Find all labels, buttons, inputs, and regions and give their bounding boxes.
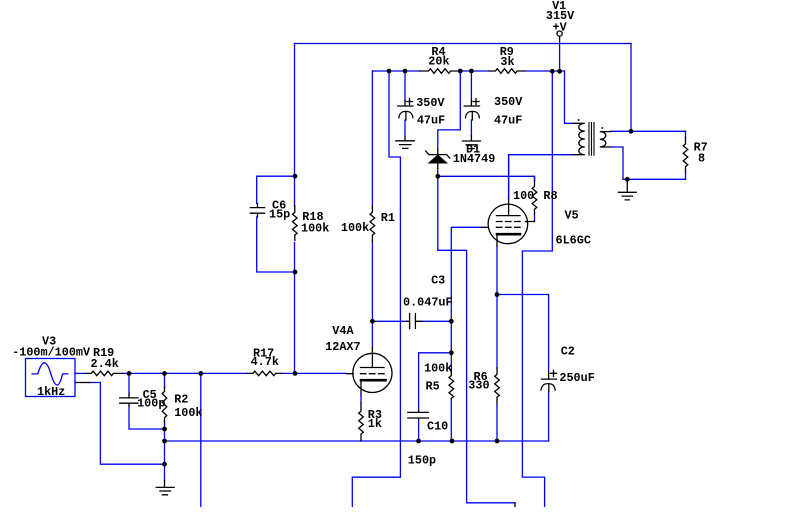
power terminal V1 +V circle [557,31,562,36]
wire V5 plate stem blue above tube [508,155,510,199]
svg-text:100k: 100k [424,362,452,376]
junction dot ground bus x419 C10 [416,439,421,444]
svg-text:C10: C10 [427,420,448,434]
V5 control grid pin left [482,226,488,228]
wire cap 47uF#1 bottom lead to ground [404,120,406,137]
svg-text:12AX7: 12AX7 [325,340,360,354]
wire vertical from top wire down to secondary top dot [630,44,632,132]
junction dot bus x460 [458,69,463,74]
wire R5 top dot to C10 branch [419,353,452,411]
ground V3 circuit [156,481,174,495]
svg-text:R8: R8 [543,189,557,203]
wire cap 47uF#1 top lead [404,71,406,100]
junction dot ground bus x497 R6 [495,439,500,444]
capacitor C10 150p plates [408,411,429,420]
junction dot V4A plate node [370,319,375,324]
wire cap 47uF#2 bottom lead to ground [470,120,472,136]
V5 cathode bar [497,233,520,236]
V5 screen grid pin right [526,221,535,223]
svg-text:350V: 350V [416,96,445,110]
junction dot V3 return [162,462,167,467]
svg-text:2.4k: 2.4k [91,357,119,371]
transformer secondary phase dot [602,127,604,129]
wire cathode junction to C2 top [497,295,549,372]
V5 screen grid dashes [496,221,520,223]
wire V3 bottom return path [90,383,165,465]
wire R2 top lead [164,373,166,387]
wire C5 top lead [128,373,130,394]
svg-text:100p: 100p [137,397,165,411]
capacitor C3 0.047uF plates [407,314,422,329]
junction dot ground bus x164 [162,439,167,444]
svg-text:R5: R5 [426,379,440,393]
capacitor 47uF#1 (350V) polarized [398,99,413,121]
svg-text:100k: 100k [174,406,202,420]
junction dot grid bus x129 [127,371,132,376]
V5 plate pin and plate bar [496,198,520,215]
resistor R4 20k [420,69,460,74]
V5 cathode pin [496,234,498,246]
svg-text:100: 100 [513,189,534,203]
ground under 47uF#2 [463,136,481,149]
svg-text:150p: 150p [408,453,436,467]
wire cap 47uF#2 top lead [470,71,472,100]
wire R8 bottom to screen grid lead [534,214,536,222]
junction dot bus x471 [469,69,474,74]
wire V5 cathode down to R6 [496,246,498,368]
V4A cathode pin [360,380,362,394]
junction dot grid bus x164 [162,371,167,376]
wire feedback from bus x552 down, step left x522.4, down, step right x544.6, off bottom [522,71,552,507]
V4A cathode bar [361,379,386,382]
svg-text:1k: 1k [368,417,382,431]
wire vertical x201 from grid bus off bottom [200,373,202,507]
voltage source V3 box [26,359,76,397]
svg-text:C2: C2 [561,345,575,359]
wire jog x389 from bus down, step to x400, down across page, step left to x353, off bottom [352,71,400,507]
svg-text:4.7k: 4.7k [251,355,279,369]
wire bus y=71 segment R4 to R9 [460,70,489,72]
resistor R5 100k [449,370,454,399]
resistor R8 100 [532,180,537,213]
svg-text:V5: V5 [565,208,579,222]
svg-text:15p: 15p [269,208,290,222]
junction dot ground bus x452 R5 [450,439,455,444]
junction dot secondary top [629,129,634,134]
transformer secondary winding [600,132,611,147]
resistor R1 100k [370,206,375,242]
wire C3 right lead [422,320,452,322]
wire D1 anode feed from bus dot x460 jog to x437.8 [438,71,461,150]
resistor R19 2.4k [86,371,122,376]
junction dot C6 top [293,174,298,179]
resistor R6 330 [495,368,500,404]
wire C2 bottom lead [548,392,550,442]
svg-text:-100m/100mV: -100m/100mV [12,345,91,359]
V4A grid dashes [360,373,385,375]
wire V5 grid1 to grid bus vertical x451.3 [451,227,482,369]
V4A grid pin [347,373,354,375]
wire bus y=71 segment R1 corner to R4 [372,70,420,72]
junction dot C5/R2 bottom [162,427,167,432]
wire C10 bottom lead [418,420,420,442]
wire D1 cathode to junction dot [437,168,439,176]
V4A triode envelope [353,353,392,392]
ground under 47uF#1 [396,137,415,149]
junction dot R5 top [449,350,454,355]
zener diode D1 1N4749 [426,150,450,169]
junction dot C6 bottom [293,270,298,275]
wire R19 to R17 grid bus [123,372,248,374]
V5 pentode envelope [488,204,528,244]
svg-text:C3: C3 [431,274,445,288]
svg-text:1kHz: 1kHz [37,385,65,399]
svg-text:330: 330 [468,379,489,393]
transformer primary winding [573,123,585,154]
svg-text:250uF: 250uF [559,371,594,385]
wire C5 bottom lead to R2 bottom dot [129,406,165,429]
capacitor C5 100p plates [120,395,138,407]
svg-text:R1: R1 [381,211,395,225]
svg-text:V4A: V4A [332,324,354,338]
junction dot grid bus x295 [293,371,298,376]
svg-text:1N4749: 1N4749 [453,152,495,166]
resistor R2 100k [162,387,167,422]
wire R7 top lead [685,131,687,137]
svg-text:350V: 350V [494,95,523,109]
wire bus y=71 segment R9 to right corner, down to transformer primary top [525,71,574,123]
junction dot D1 anode node [435,174,440,179]
V4A plate pin and plate bar [361,348,385,368]
wire R2 bottom lead to ground column [164,422,166,481]
svg-text:47uF: 47uF [494,114,522,128]
svg-text:+V: +V [553,20,568,34]
wire V3 top pin stub [75,372,86,374]
wire D1 junction to R8 top [438,176,535,180]
V3 sine wave [32,363,69,385]
transformer primary phase dot [578,119,580,121]
wire R1 bottom to V4A plate node [371,242,373,347]
capacitor C2 250uF polarized [541,370,557,391]
wire stub black at bottom edge x515 [514,503,516,507]
wire transformer primary bottom to V5 plate [509,155,574,199]
resistor R9 3k [489,69,525,74]
wire transformer secondary bottom to ground dot and R7 bottom [611,147,686,179]
resistor R3 1k [359,403,364,441]
wire C3 left lead [372,320,406,322]
junction dot bus x559 +V [557,69,562,74]
wire ground bus y=441 [165,440,549,442]
wire C6 bottom loop [257,217,295,272]
svg-text:47uF: 47uF [417,114,445,128]
junction dot cathode V5 node [495,292,500,297]
resistor R17 4.7k [247,371,282,376]
junction dot bus x389 [387,69,392,74]
svg-text:R2: R2 [174,393,188,407]
transformer core [589,123,594,156]
wire V4A cathode to R3 [360,395,362,403]
capacitor 47uF#2 (350V) polarized [464,99,479,121]
V3 source pin stub bottom [75,382,90,384]
wire left vertical x=295 from top wire to grid node [294,44,296,207]
junction dot bus x552 [550,69,555,74]
wire R5 bottom to ground bus [450,399,452,441]
svg-text:8: 8 [698,152,705,166]
wire R8 vertical feed [534,176,536,180]
junction dot grid bus x201 [198,371,203,376]
svg-text:0.047uF: 0.047uF [403,296,453,310]
svg-text:20k: 20k [428,55,449,69]
svg-text:100k: 100k [301,222,329,236]
wire D1 junction down, step right to x466.6, down, right to x516 at bottom [438,176,515,503]
wire +V stem to bus [559,44,561,72]
junction dot ground tap y179 [625,177,630,182]
capacitor C6 15p plates [250,204,264,218]
junction dot C3 right [449,319,454,324]
wire R17 to V4A grid [283,372,347,374]
svg-text:100k: 100k [341,221,369,235]
svg-text:6L6GC: 6L6GC [556,233,591,247]
junction dot bus x405 [403,69,408,74]
wire R7 bottom lead [685,173,687,180]
ground under transformer secondary [618,179,636,200]
V5 control grid dashes [496,226,520,228]
svg-text:3k: 3k [500,55,514,69]
wire transformer secondary top to R7 top [611,130,686,132]
wire top B+ horizontal [295,43,632,45]
wire C6 top loop [257,176,295,203]
wire R1 top lead from bus [371,71,373,206]
resistor R18 100k [293,206,298,241]
wire R6 bottom to ground bus [496,404,498,441]
resistor R7 8 [683,138,688,173]
